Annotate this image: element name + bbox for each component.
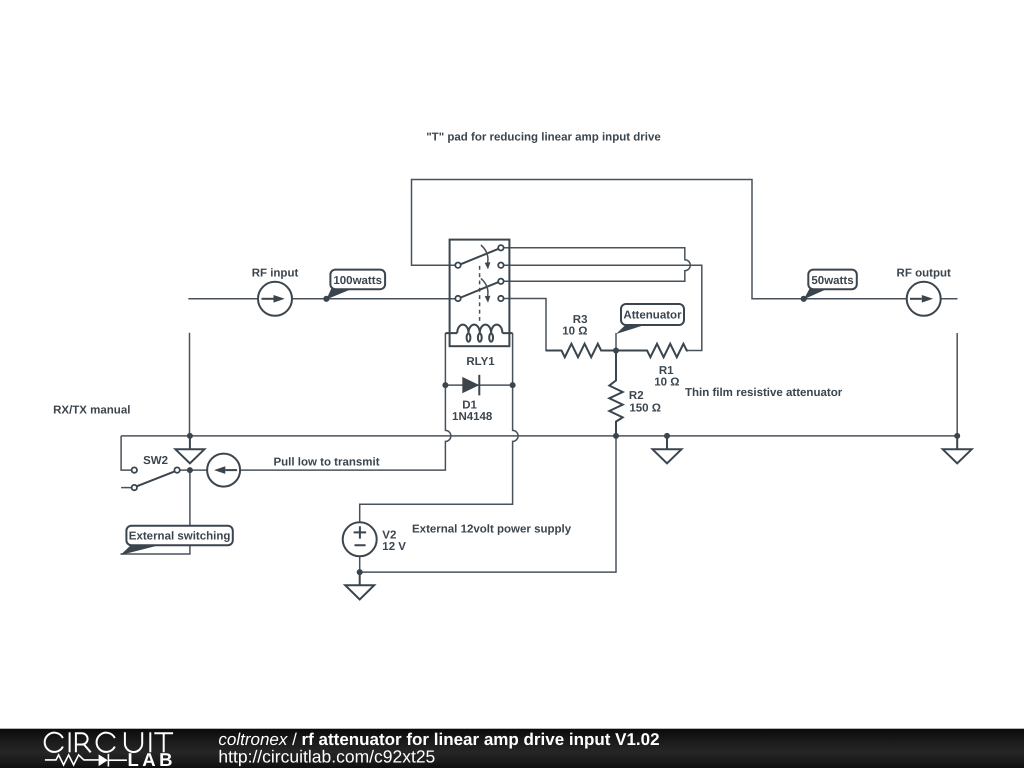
svg-text:D1: D1: [462, 400, 477, 412]
svg-text:10 Ω: 10 Ω: [562, 326, 587, 338]
wire D1 branch: [445, 384, 512, 386]
wire relay throw1a to throw2a with hop: [504, 248, 691, 281]
svg-text:"T" pad for reducing linear am: "T" pad for reducing linear amp input dr…: [426, 131, 661, 143]
relay coil flag lines: [445, 332, 512, 334]
relay RLY1: [445, 240, 512, 347]
svg-text:R1: R1: [659, 365, 674, 377]
node R2 bottom on rail: [613, 433, 619, 439]
ground at V2 minus: [345, 572, 374, 599]
label bubble 50watts: [804, 270, 857, 300]
svg-text:R3: R3: [573, 314, 588, 326]
ground at attenuator rail: [653, 436, 682, 464]
label bubble Attenuator: [616, 304, 684, 334]
svg-text:V2: V2: [382, 529, 396, 541]
wire RF output drop to ground: [956, 333, 958, 436]
wire pull-low run with hop over ground rail: [240, 333, 451, 470]
relay dashed actuator line: [479, 266, 481, 322]
wire relay throw1b to R1 right: [504, 265, 702, 350]
svg-text:RX/TX manual: RX/TX manual: [53, 405, 130, 417]
node SW2 common junction: [187, 467, 193, 473]
svg-text:R2: R2: [629, 390, 644, 402]
wire RF output stub: [941, 298, 958, 300]
node rail at RX/TX: [187, 433, 193, 439]
ground at RF output drop: [943, 436, 972, 464]
wire external switching drop: [121, 470, 190, 554]
label bubble External switching: [121, 526, 233, 555]
svg-text:1N4148: 1N4148: [452, 411, 493, 423]
footer logo CIRCUIT: [45, 732, 173, 752]
relay terminals: [455, 263, 460, 268]
relay outer box: [450, 240, 510, 347]
wire RF input stub: [188, 298, 258, 300]
node D1 anode: [442, 382, 448, 388]
switch SW2: [132, 467, 180, 490]
svg-text:Thin film resistive attenuator: Thin film resistive attenuator: [685, 387, 843, 399]
wire relay coil right to V2 plus with hop over ground rail: [360, 333, 518, 522]
resistor R1: [616, 344, 688, 357]
svg-text:http://circuitlab.com/c92xt25: http://circuitlab.com/c92xt25: [218, 746, 435, 766]
resistor R3: [546, 344, 616, 357]
node D1 cathode: [510, 382, 516, 388]
label bubble 100watts: [326, 270, 385, 300]
voltage source V2: [343, 522, 377, 556]
svg-text:100watts: 100watts: [333, 275, 382, 287]
relay switch 2 arm: [461, 282, 498, 297]
diode D1: [462, 375, 479, 396]
footer bar: [0, 729, 1024, 768]
RF output source symbol: [907, 282, 941, 316]
wire SW2 lower throw open stub: [121, 487, 132, 489]
relay switch 1 arrow: [481, 245, 488, 263]
wire R2 bottom to V2 minus: [360, 436, 616, 572]
wire SW2 common to probe: [180, 469, 208, 471]
wire V2 minus lead: [359, 556, 361, 572]
wire ground rail: [121, 435, 957, 437]
node dot 100watts attach: [323, 296, 329, 302]
svg-text:150 Ω: 150 Ω: [629, 403, 661, 415]
wire attenuator label stub: [615, 333, 617, 351]
wire RX/TX manual stub: [189, 333, 191, 436]
svg-text:External switching: External switching: [129, 531, 231, 543]
node ground symbol on rail: [664, 433, 670, 439]
svg-text:12 V: 12 V: [382, 541, 406, 553]
svg-text:10 Ω: 10 Ω: [654, 377, 679, 389]
current probe circle near SW2: [207, 454, 240, 487]
svg-text:50watts: 50watts: [811, 275, 853, 287]
wire top bypass loop to RF output: [412, 180, 907, 299]
relay switch 1 arm: [461, 249, 498, 264]
relay switch 2 arrow: [481, 278, 488, 296]
footer logo resistor-diode glyph: [45, 754, 127, 767]
wire RF input to relay: [292, 298, 455, 300]
node dot 50watts attach: [801, 296, 807, 302]
wire rail to SW2 upper throw: [121, 436, 132, 470]
node rail right end: [954, 433, 960, 439]
svg-text:SW2: SW2: [143, 455, 168, 467]
node attenuator T junction: [613, 348, 619, 354]
RF input source V/I symbol: [258, 282, 292, 316]
svg-text:Attenuator: Attenuator: [623, 310, 682, 322]
svg-text:LAB: LAB: [128, 749, 177, 768]
svg-text:Pull low to transmit: Pull low to transmit: [273, 457, 379, 469]
node V2 minus junction: [357, 569, 363, 575]
svg-text:RF output: RF output: [897, 267, 951, 279]
svg-text:RF input: RF input: [252, 268, 299, 280]
resistor R2: [609, 351, 622, 436]
wire relay throw2b to R3 left: [504, 299, 562, 351]
svg-text:External 12volt power supply: External 12volt power supply: [412, 523, 572, 535]
ground at SW2 node: [175, 436, 204, 464]
relay coil loops: [457, 325, 502, 334]
svg-text:RLY1: RLY1: [466, 356, 495, 368]
